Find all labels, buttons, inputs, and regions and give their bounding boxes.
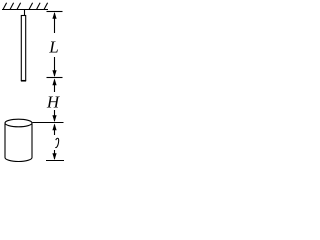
cylinder bottom arc — [5, 158, 32, 162]
cylinder top ellipse — [5, 119, 32, 127]
ceiling hatch 4 — [29, 3, 33, 10]
dimension tick cylinder rim — [33, 122, 64, 124]
dimension H arrow down head — [52, 115, 56, 122]
dimension l arrow up head — [52, 124, 56, 131]
dimension H arrow down shaft — [54, 110, 56, 121]
dimension L arrow down head — [52, 70, 56, 77]
dimension l arrow up shaft — [54, 125, 56, 136]
svg-text:H: H — [46, 93, 61, 112]
rod bottom cap — [21, 80, 26, 82]
ceiling hatch 6 — [44, 3, 48, 10]
cylinder left wall — [4, 124, 6, 158]
dimension l arrow down head — [52, 153, 56, 160]
dimension tick top — [47, 11, 63, 13]
dimension tick mid — [47, 77, 63, 79]
ceiling hatch 2 — [10, 3, 14, 10]
dimension H arrow up shaft — [54, 80, 56, 93]
ceiling line — [2, 9, 48, 11]
ceiling hatch 1 — [3, 3, 7, 10]
hanger wire — [24, 10, 26, 16]
dimension l arrow down shaft — [54, 150, 56, 159]
label l — [55, 138, 58, 147]
cylinder right wall — [31, 124, 33, 158]
dimension L arrow up head — [52, 12, 56, 19]
svg-text:L: L — [48, 38, 58, 57]
dimension tick bottom — [46, 160, 64, 162]
dimension L arrow down shaft — [54, 57, 56, 76]
dimension L arrow up shaft — [54, 13, 56, 33]
ceiling hatch 3 — [17, 3, 21, 10]
rod — [21, 16, 25, 81]
dimension H arrow up head — [52, 79, 56, 86]
ceiling hatch 5 — [37, 3, 41, 10]
